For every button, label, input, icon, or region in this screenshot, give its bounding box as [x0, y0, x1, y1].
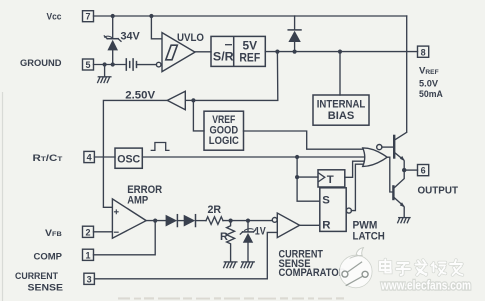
wire UVLO output to S/R block	[195, 51, 211, 53]
svg-text:UVLO: UVLO	[177, 32, 204, 44]
pin 5 box	[83, 59, 94, 70]
svg-text:Vcc: Vcc	[47, 12, 62, 22]
node junction dot vref-bias	[338, 50, 342, 54]
wire battery to UVLO bubble	[137, 64, 157, 66]
svg-text:COMPARATOR: COMPARATOR	[279, 267, 346, 279]
svg-text:S: S	[322, 194, 330, 206]
pin 6 box	[418, 165, 429, 176]
wire ground stub	[104, 65, 106, 77]
scan artifact left edge line	[2, 92, 4, 301]
wire VREF rail to pin 8	[265, 51, 417, 53]
wire ground row pin5 to battery	[94, 64, 125, 66]
svg-text:5: 5	[85, 60, 90, 70]
wire Vcc top rail pin7 to right corner	[94, 15, 407, 17]
gate inverted output bubble	[377, 145, 382, 150]
wire gate output to lower transistor base	[387, 157, 392, 192]
node junction dot rail-UVLO	[149, 14, 153, 18]
ground symbol under pin5	[98, 77, 111, 83]
svg-text:S/R: S/R	[213, 50, 234, 64]
svg-text:50mA: 50mA	[419, 89, 443, 100]
svg-text:PWM: PWM	[353, 219, 378, 231]
latch output bubble	[346, 208, 351, 213]
svg-text:OUTPUT: OUTPUT	[418, 185, 459, 196]
svg-text:2: 2	[85, 227, 90, 237]
op-amp U8 error amp	[112, 199, 146, 238]
wire bubble to upper transistor base	[382, 146, 393, 148]
battery symbol UVLO threshold	[126, 59, 136, 70]
svg-text:REF: REF	[239, 50, 260, 64]
block U4 VREF GOOD LOGIC	[204, 111, 244, 150]
wire pin2 to error amp minus	[94, 231, 113, 233]
svg-text:SENSE: SENSE	[28, 282, 64, 292]
svg-text:7: 7	[85, 12, 90, 22]
svg-text:OSC: OSC	[117, 154, 140, 166]
block U7 PWM latch S/R	[320, 188, 352, 232]
wire into buffer	[185, 99, 193, 101]
svg-text:COMP: COMP	[34, 252, 63, 262]
wire internal bias branch	[339, 52, 341, 95]
ground symbol under R	[224, 262, 237, 268]
wire output node to pin6	[404, 169, 417, 171]
wire comparator output to latch R	[300, 224, 320, 226]
block U2 S/R + 5V REF	[211, 36, 265, 66]
pin 8 box	[418, 46, 429, 57]
wire EA output	[146, 220, 165, 222]
svg-text:R: R	[322, 220, 330, 232]
wire buffer output to error amp plus input	[103, 100, 167, 207]
wire Vcc vertical to output transistor collector	[406, 16, 408, 132]
diode D3 vref to vcc	[288, 16, 301, 52]
svg-text:BIAS: BIAS	[328, 110, 355, 122]
scan artifact bottom cropped caption remnants	[118, 297, 344, 299]
wire UVLO plus input from rail	[151, 16, 162, 39]
wire vref good logic output to NOR gate	[244, 131, 364, 149]
ground symbol under 1V zener	[241, 262, 254, 268]
transistor Q2 lower NPN	[393, 170, 405, 217]
transistor Q1 upper NPN	[394, 132, 407, 170]
node junction dot rail-zener	[111, 14, 115, 18]
ground symbol output emitter	[397, 218, 410, 224]
svg-text:3: 3	[87, 274, 92, 284]
node junction dot osc branch	[295, 155, 299, 159]
wire T output to NOR gate	[345, 161, 365, 177]
node junction dot vref-2.5	[275, 50, 279, 54]
pin 7 box	[83, 11, 94, 22]
resistor 2R	[206, 217, 223, 225]
svg-text:AMP: AMP	[127, 194, 148, 206]
op-amp U3 2.50V buffer	[167, 91, 185, 109]
pin 2 box	[83, 226, 94, 237]
wire zener branch upper	[112, 16, 114, 38]
watermark logo elecfans	[340, 248, 373, 288]
svg-text:34V: 34V	[121, 30, 141, 42]
svg-text:8: 8	[421, 47, 426, 57]
svg-text:4: 4	[87, 153, 92, 163]
svg-text:5.0V: 5.0V	[419, 78, 439, 89]
diode D1	[166, 215, 178, 227]
svg-text:T: T	[327, 174, 334, 186]
wire 2.50V reference branch	[193, 52, 277, 101]
wire OSC output line to NOR gate	[142, 156, 365, 158]
wire pin1 COMP to error amp output	[94, 221, 156, 255]
svg-text:2R: 2R	[208, 204, 222, 216]
node junction dot T branch	[295, 175, 299, 179]
block U5 OSC	[115, 148, 142, 168]
wire osc to latch S input	[297, 177, 320, 201]
node junction dot zener branch	[246, 219, 250, 223]
pin 1 box	[83, 249, 94, 260]
wire zener to ground row	[112, 50, 114, 64]
svg-text:CURRENT: CURRENT	[15, 271, 58, 281]
resistor R	[227, 221, 235, 262]
svg-text:6: 6	[421, 166, 426, 176]
node junction dot vref-diode	[293, 50, 297, 54]
svg-text:2.50V: 2.50V	[125, 90, 155, 102]
wire 2R to comparator	[223, 220, 272, 222]
zener diode 1V	[240, 221, 255, 262]
svg-text:1: 1	[85, 250, 90, 260]
pin 4 box	[84, 151, 95, 162]
block U6 T flip-flop	[318, 170, 345, 187]
wire pin4 to OSC	[94, 156, 115, 158]
svg-text:GROUND: GROUND	[20, 58, 62, 68]
svg-text:LATCH: LATCH	[353, 231, 385, 243]
op-amp U1 UVLO comparator	[156, 33, 195, 72]
pin 3 box	[84, 273, 95, 284]
node junction dot gnd-stub	[103, 62, 107, 66]
wire latch output to NOR gate	[351, 164, 364, 210]
wire osc to T flipflop clock	[297, 157, 318, 177]
svg-text:INTERNAL: INTERNAL	[317, 98, 366, 110]
node junction dot zener-gnd row	[111, 62, 115, 66]
op-amp U9 current sense comparator	[272, 213, 299, 238]
svg-text:1V: 1V	[255, 226, 267, 238]
zener diode 34V	[104, 36, 121, 51]
logic gate NOR output driver	[363, 145, 388, 167]
node junction dot output	[402, 168, 406, 172]
wire to vref good logic	[193, 100, 204, 130]
wire pin3 current sense to comparator	[94, 232, 277, 278]
svg-text:www.elecfans.com: www.elecfans.com	[380, 279, 471, 293]
svg-text:LOGIC: LOGIC	[209, 135, 239, 147]
node junction dot R branch	[229, 219, 233, 223]
clock pulse symbol	[151, 143, 169, 151]
svg-text:R: R	[220, 231, 228, 243]
node junction dot buffer input	[191, 98, 195, 102]
block internal bias	[313, 95, 369, 125]
node junction dot EA output	[153, 219, 157, 223]
diode D2	[184, 215, 196, 227]
